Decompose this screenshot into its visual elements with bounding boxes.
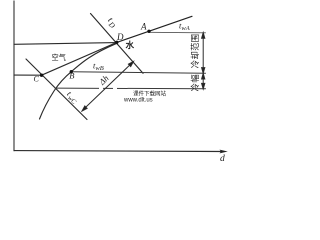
svg-text:www.dlt.us: www.dlt.us [123, 98, 153, 104]
svg-text:twB: twB [93, 61, 104, 73]
label t_wC (rotated along line) [64, 89, 81, 106]
gaps in bottom reference line (dashes) [99, 87, 103, 90]
node B [70, 70, 73, 73]
line t_wC (diagonal through C) [26, 59, 87, 120]
node C [40, 74, 43, 77]
svg-text:B: B [69, 71, 74, 81]
delta-h dimension arrow [82, 62, 134, 112]
svg-text:水: 水 [125, 40, 135, 50]
isotherm through D (horizontal from axis) [14, 43, 117, 45]
svg-text:C: C [34, 75, 40, 84]
svg-text:d: d [220, 154, 225, 164]
i axis (vertical) [13, 1, 15, 151]
axis arrowhead d [220, 150, 228, 154]
dimension line (right) [202, 33, 205, 89]
svg-text:A: A [140, 22, 147, 32]
middle reference line through B [71, 72, 205, 73]
isotherm through C (horizontal from axis) [14, 74, 42, 76]
top reference line through A [149, 31, 206, 34]
node D [115, 41, 118, 44]
line t_D (diagonal through D) [91, 14, 144, 74]
svg-text:空气: 空气 [52, 53, 66, 62]
bottom reference line [55, 87, 206, 90]
saturation curve (water) [40, 43, 117, 119]
svg-text:twA: twA [179, 21, 190, 33]
d axis (horizontal) [14, 150, 223, 153]
svg-text:冷幅: 冷幅 [190, 74, 200, 92]
label t_D (rotated along line) [104, 15, 120, 31]
label approach (vertical) [190, 74, 200, 92]
air process curve C to D [42, 42, 117, 75]
label delta h (rotated along arrow) [96, 73, 110, 87]
svg-text:课件下载网站: 课件下载网站 [133, 90, 167, 98]
svg-text:D: D [116, 32, 124, 42]
svg-text:冷却范围: 冷却范围 [190, 34, 200, 69]
node A [147, 30, 150, 33]
water line D to A [117, 16, 192, 42]
label cooling range (vertical) [190, 34, 200, 69]
